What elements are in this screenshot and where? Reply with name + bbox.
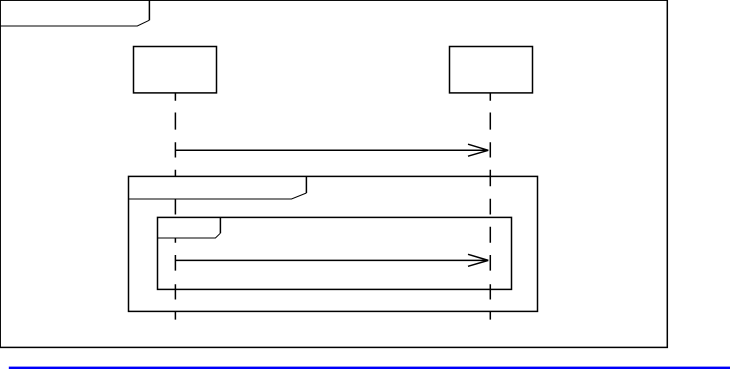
lifeline head box 2 bbox=[450, 47, 533, 93]
inner fragment tab fill bbox=[158, 217, 221, 237]
combined fragment (outer) tab fill bbox=[129, 176, 307, 199]
combined fragment (outer) tab bevel and bottom bbox=[129, 193, 307, 199]
inner fragment tab bevel and bottom bbox=[158, 233, 221, 238]
lifeline 1 (dashed) bbox=[174, 93, 176, 320]
horizontal rule (blue) bbox=[9, 367, 730, 369]
message arrow 2 bbox=[175, 254, 488, 266]
diagram frame tab bevel and bottom bbox=[0, 20, 149, 26]
diagram frame tab fill bbox=[0, 0, 149, 26]
diagram frame tab right edge bbox=[148, 0, 150, 20]
lifeline 2 (dashed) bbox=[489, 93, 491, 320]
message arrow 1 bbox=[175, 144, 488, 156]
lifeline head box 1 bbox=[134, 47, 217, 93]
combined fragment (outer) frame bbox=[129, 176, 538, 311]
inner fragment tab right edge bbox=[219, 217, 221, 233]
inner fragment frame bbox=[158, 217, 512, 289]
combined fragment (outer) tab right edge bbox=[305, 176, 307, 193]
